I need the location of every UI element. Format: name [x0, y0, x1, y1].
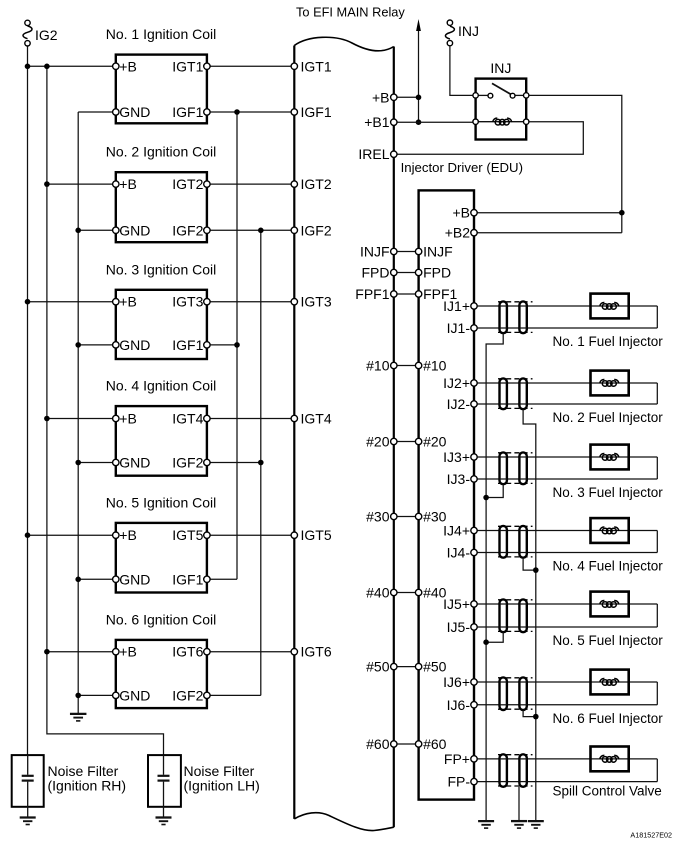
svg-text:IGF2: IGF2: [172, 455, 203, 471]
svg-text:IGT2: IGT2: [301, 176, 332, 192]
svg-text:No. 6 Fuel Injector: No. 6 Fuel Injector: [553, 711, 664, 726]
svg-text:+B: +B: [452, 205, 470, 221]
svg-text:GND: GND: [119, 571, 150, 587]
svg-text:A181527E02: A181527E02: [630, 831, 672, 840]
svg-text:IGT1: IGT1: [172, 58, 203, 74]
svg-text:IJ1-: IJ1-: [447, 320, 471, 336]
svg-text:GND: GND: [119, 687, 150, 703]
svg-text:No. 4 Ignition Coil: No. 4 Ignition Coil: [106, 378, 217, 394]
svg-text:No. 5 Ignition Coil: No. 5 Ignition Coil: [106, 494, 217, 510]
svg-text:#10: #10: [423, 358, 447, 374]
svg-text:IGF2: IGF2: [301, 222, 332, 238]
svg-text:+B: +B: [372, 89, 390, 105]
svg-text:IJ6-: IJ6-: [447, 697, 471, 713]
svg-text:IGT5: IGT5: [172, 527, 203, 543]
svg-text:#60: #60: [366, 736, 390, 752]
svg-text:IGF1: IGF1: [301, 104, 332, 120]
svg-text:#10: #10: [366, 358, 390, 374]
svg-text:No. 3 Fuel Injector: No. 3 Fuel Injector: [553, 485, 664, 500]
svg-text:FPD: FPD: [423, 265, 451, 281]
svg-text:(Ignition RH): (Ignition RH): [48, 778, 127, 794]
svg-text:GND: GND: [119, 455, 150, 471]
svg-text:No. 4 Fuel Injector: No. 4 Fuel Injector: [553, 559, 664, 574]
svg-text:No. 1 Ignition Coil: No. 1 Ignition Coil: [106, 26, 217, 42]
svg-text:To EFI MAIN Relay: To EFI MAIN Relay: [296, 5, 405, 20]
svg-text:IJ1+: IJ1+: [443, 298, 470, 314]
svg-text:IREL: IREL: [358, 146, 389, 162]
svg-text:+B1: +B1: [364, 114, 390, 130]
svg-text:INJF: INJF: [423, 244, 453, 260]
svg-text:+B: +B: [119, 176, 137, 192]
svg-text:IGT2: IGT2: [172, 176, 203, 192]
svg-text:IGT6: IGT6: [172, 644, 203, 660]
svg-text:IGF1: IGF1: [172, 571, 203, 587]
svg-text:IJ2-: IJ2-: [447, 396, 471, 412]
svg-text:(Ignition LH): (Ignition LH): [184, 778, 260, 794]
svg-text:IGT4: IGT4: [301, 411, 332, 427]
svg-text:IGT6: IGT6: [301, 644, 332, 660]
svg-text:No. 1 Fuel Injector: No. 1 Fuel Injector: [553, 334, 664, 349]
svg-text:IGT4: IGT4: [172, 411, 203, 427]
svg-text:+B: +B: [119, 58, 137, 74]
svg-text:#20: #20: [366, 434, 390, 450]
svg-text:FP+: FP+: [444, 751, 470, 767]
svg-text:FPF1: FPF1: [355, 286, 389, 302]
svg-text:+B: +B: [119, 411, 137, 427]
svg-text:IJ4-: IJ4-: [447, 545, 471, 561]
svg-text:IGT3: IGT3: [301, 294, 332, 310]
svg-text:FP-: FP-: [447, 774, 470, 790]
svg-text:FPD: FPD: [362, 265, 390, 281]
svg-text:+B: +B: [119, 644, 137, 660]
svg-text:GND: GND: [119, 222, 150, 238]
svg-text:#40: #40: [366, 585, 390, 601]
svg-text:Injector Driver (EDU): Injector Driver (EDU): [401, 160, 523, 175]
svg-text:+B: +B: [119, 527, 137, 543]
svg-text:IGF1: IGF1: [172, 337, 203, 353]
svg-text:Spill Control Valve: Spill Control Valve: [553, 784, 662, 799]
svg-text:IJ3+: IJ3+: [443, 449, 470, 465]
svg-text:IGT3: IGT3: [172, 294, 203, 310]
svg-text:#60: #60: [423, 736, 447, 752]
svg-text:IGF1: IGF1: [172, 104, 203, 120]
svg-text:IG2: IG2: [35, 27, 58, 43]
svg-text:INJF: INJF: [360, 244, 390, 260]
svg-text:#50: #50: [423, 659, 447, 675]
svg-text:GND: GND: [119, 104, 150, 120]
svg-text:+B: +B: [119, 294, 137, 310]
svg-text:IJ6+: IJ6+: [443, 674, 470, 690]
svg-text:+B2: +B2: [445, 225, 471, 241]
svg-text:IGT5: IGT5: [301, 527, 332, 543]
svg-text:#50: #50: [366, 659, 390, 675]
svg-text:IJ5-: IJ5-: [447, 619, 471, 635]
svg-text:No. 3 Ignition Coil: No. 3 Ignition Coil: [106, 261, 217, 277]
svg-text:INJ: INJ: [458, 23, 479, 39]
svg-text:No. 6 Ignition Coil: No. 6 Ignition Coil: [106, 611, 217, 627]
svg-text:No. 2 Ignition Coil: No. 2 Ignition Coil: [106, 144, 217, 160]
svg-text:No. 2 Fuel Injector: No. 2 Fuel Injector: [553, 410, 664, 425]
svg-text:IJ2+: IJ2+: [443, 375, 470, 391]
svg-text:IJ4+: IJ4+: [443, 523, 470, 539]
svg-text:IJ3-: IJ3-: [447, 471, 471, 487]
svg-text:IGT1: IGT1: [301, 58, 332, 74]
svg-text:#20: #20: [423, 434, 447, 450]
svg-text:GND: GND: [119, 337, 150, 353]
svg-text:IGF2: IGF2: [172, 222, 203, 238]
svg-text:No. 5 Fuel Injector: No. 5 Fuel Injector: [553, 633, 664, 648]
svg-text:IJ5+: IJ5+: [443, 596, 470, 612]
svg-text:IGF2: IGF2: [172, 687, 203, 703]
svg-text:#30: #30: [366, 509, 390, 525]
svg-text:INJ: INJ: [490, 60, 511, 76]
